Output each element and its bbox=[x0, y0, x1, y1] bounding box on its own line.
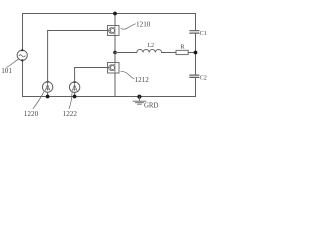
wire: bottom rail bbox=[23, 96, 196, 98]
node: junction dot top rail / 1210 drain bbox=[113, 12, 117, 16]
label R bbox=[180, 43, 185, 50]
node: junction dot ground / bottom rail bbox=[137, 95, 141, 99]
svg-text:L2: L2 bbox=[148, 43, 155, 49]
label GRD bbox=[144, 103, 158, 110]
wire: 1222 riser to 1212 gate bbox=[75, 68, 108, 83]
leader line for label 1210 bbox=[121, 24, 136, 29]
AC source 101 bbox=[17, 49, 27, 61]
wire: right rail bottom segment (C2 to bottom rail) bbox=[195, 78, 197, 97]
node: junction dot 1220 / bottom rail bbox=[46, 95, 50, 99]
wire: 1220 riser to 1210 gate bbox=[48, 31, 108, 82]
transistor 1212 bbox=[108, 63, 120, 74]
label 1212 bbox=[135, 76, 150, 84]
svg-text:C1: C1 bbox=[200, 30, 207, 37]
wire: mid node down to 1212 drain bbox=[114, 53, 116, 63]
leader line for label 1222 bbox=[69, 93, 72, 109]
resistor R bbox=[176, 50, 188, 54]
wire: 1220 stub to bottom rail bbox=[47, 92, 49, 96]
label 101 bbox=[1, 67, 12, 75]
svg-text:1210: 1210 bbox=[136, 20, 151, 28]
svg-text:C2: C2 bbox=[200, 74, 207, 81]
wire: 1210 drain to top rail bbox=[114, 14, 116, 26]
wire: L2 to resistor R bbox=[162, 52, 176, 54]
wire: right rail middle segment (C1 to C2) bbox=[195, 34, 197, 75]
ammeter 1220 bbox=[42, 81, 52, 93]
svg-text:1220: 1220 bbox=[24, 110, 39, 118]
ground GRD bbox=[133, 97, 146, 105]
node: mid junction dot (between 1210 and 1212) bbox=[113, 51, 117, 55]
capacitor C1 bbox=[190, 31, 199, 33]
label 1222 bbox=[63, 110, 78, 118]
label C1 bbox=[200, 30, 207, 37]
leader line for label 1220 bbox=[33, 92, 44, 109]
wire: right rail top segment (top rail to C1) bbox=[195, 14, 197, 31]
ammeter 1222 bbox=[69, 81, 79, 93]
wire: 1212 source to bottom rail bbox=[114, 73, 116, 97]
label 1210 bbox=[136, 20, 151, 28]
wire: R to right rail bbox=[188, 52, 195, 54]
wire: 1222 stub to bottom rail bbox=[74, 92, 76, 96]
wire: 1210 source down to mid node bbox=[114, 36, 116, 53]
svg-text:101: 101 bbox=[1, 67, 12, 75]
leader line for label 101 bbox=[7, 59, 19, 67]
wire: mid node to inductor L2 bbox=[115, 52, 137, 54]
label 1220 bbox=[24, 110, 39, 118]
node: junction dot 1222 / bottom rail bbox=[73, 95, 77, 99]
svg-text:1212: 1212 bbox=[135, 76, 150, 84]
transistor 1210 bbox=[108, 26, 120, 36]
capacitor C2 bbox=[190, 75, 199, 77]
svg-text:1222: 1222 bbox=[63, 110, 78, 118]
node: junction dot right rail / R branch bbox=[194, 51, 198, 55]
wire: top rail bbox=[23, 13, 196, 15]
wire: left rail lower (AC source to bottom rail) bbox=[22, 60, 24, 96]
svg-text:GRD: GRD bbox=[144, 103, 158, 110]
label C2 bbox=[200, 74, 207, 81]
svg-text:R: R bbox=[180, 43, 185, 50]
inductor L2 bbox=[137, 49, 162, 52]
leader line for label 1212 bbox=[121, 71, 134, 79]
wire: left rail upper (top rail to AC source) bbox=[22, 14, 24, 51]
label L2 bbox=[148, 43, 155, 49]
